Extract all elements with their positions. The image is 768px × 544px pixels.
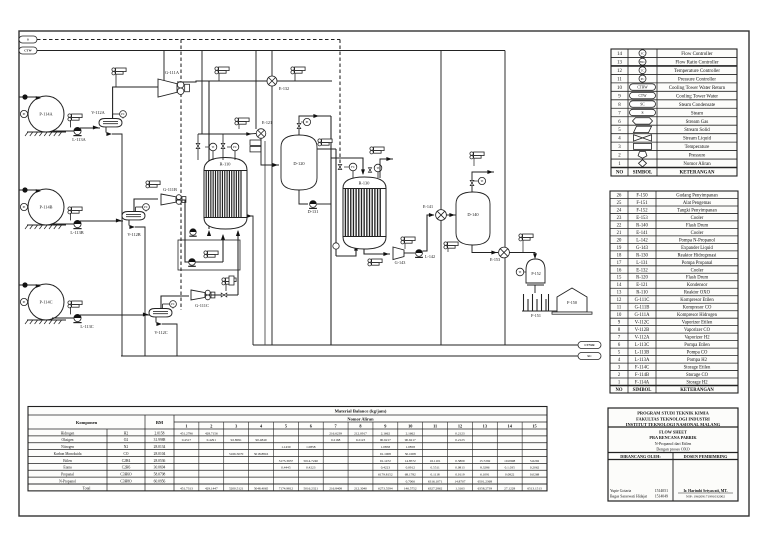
TI at R-130 top right bbox=[374, 164, 382, 172]
flag above G-111B bbox=[146, 181, 149, 184]
svg-text:1.0858: 1.0858 bbox=[306, 445, 316, 449]
svg-text:13: 13 bbox=[617, 291, 622, 296]
svg-text:1.0858: 1.0858 bbox=[406, 445, 416, 449]
valve on D-120 vent bbox=[297, 123, 301, 126]
svg-text:R-130: R-130 bbox=[359, 181, 370, 186]
svg-text:10: 10 bbox=[617, 86, 622, 91]
svg-text:0.0822: 0.0822 bbox=[505, 473, 515, 477]
legend table 2 bbox=[610, 191, 738, 393]
svg-text:L-131: L-131 bbox=[636, 261, 648, 266]
svg-text:G-111A: G-111A bbox=[634, 313, 650, 318]
svg-text:CTW: CTW bbox=[24, 49, 32, 53]
svg-text:S: S bbox=[642, 111, 644, 115]
pump L-142 bbox=[404, 252, 415, 254]
reactor R-130 (hydrogenation) bbox=[343, 177, 386, 249]
condensate drain of V-112B bbox=[128, 220, 130, 226]
feed line into P-114B bbox=[19, 189, 40, 191]
svg-text:Total: Total bbox=[83, 486, 91, 490]
svg-text:SC: SC bbox=[587, 354, 592, 358]
svg-text:Propanal: Propanal bbox=[61, 473, 74, 477]
svg-text:428.7156: 428.7156 bbox=[205, 431, 218, 435]
svg-text:Etilen: Etilen bbox=[63, 459, 72, 463]
svg-text:TI: TI bbox=[377, 166, 380, 170]
D-140 bottoms to E-153 bbox=[472, 245, 498, 253]
svg-text:Ir. Harimbi Setyawati, MT.: Ir. Harimbi Setyawati, MT. bbox=[683, 489, 727, 493]
svg-text:PI: PI bbox=[306, 120, 309, 124]
svg-text:22: 22 bbox=[617, 223, 622, 228]
svg-text:0.4291: 0.4291 bbox=[207, 438, 217, 442]
instrument flag above L-113A bbox=[68, 114, 71, 117]
cooler E-153 bbox=[499, 247, 510, 258]
svg-text:Reaktor OXO: Reaktor OXO bbox=[684, 291, 711, 296]
storage tank P-114A bbox=[28, 96, 64, 132]
pump L-113C bbox=[52, 317, 74, 319]
svg-text:5048.4065: 5048.4065 bbox=[254, 486, 269, 490]
svg-text:5016.2321: 5016.2321 bbox=[304, 486, 319, 490]
svg-text:NIP: 196209171991032002: NIP: 196209171991032002 bbox=[686, 495, 725, 499]
svg-text:L-113B: L-113B bbox=[635, 351, 649, 356]
compressor G-111C bbox=[191, 290, 205, 300]
svg-text:G-111B: G-111B bbox=[635, 306, 650, 311]
svg-text:S: S bbox=[27, 38, 29, 42]
svg-text:28.0536: 28.0536 bbox=[154, 459, 166, 463]
svg-text:0.1118: 0.1118 bbox=[431, 473, 440, 477]
svg-text:5: 5 bbox=[285, 423, 287, 428]
svg-text:G-111B: G-111B bbox=[163, 187, 177, 192]
cooler E-132 bbox=[267, 76, 277, 86]
svg-text:14.8572: 14.8572 bbox=[405, 459, 416, 463]
loading platform bbox=[548, 310, 557, 312]
svg-text:G-111C: G-111C bbox=[635, 298, 650, 303]
svg-text:V-112B: V-112B bbox=[127, 232, 140, 237]
svg-text:V-112C: V-112C bbox=[635, 321, 650, 326]
svg-text:Steam: Steam bbox=[691, 111, 703, 116]
svg-text:Flash Drum: Flash Drum bbox=[686, 223, 709, 228]
svg-text:17: 17 bbox=[617, 261, 622, 266]
svg-text:E-153: E-153 bbox=[636, 216, 648, 221]
feed line pump L-113B to V-112B bbox=[80, 220, 123, 222]
svg-text:L-142: L-142 bbox=[425, 254, 435, 259]
svg-text:28.0104: 28.0104 bbox=[154, 452, 166, 456]
V-112C vapor line to G-111C bbox=[161, 296, 189, 309]
svg-text:Kompresor Etilen: Kompresor Etilen bbox=[680, 298, 714, 303]
svg-text:3: 3 bbox=[235, 423, 237, 428]
pump below R-110 bbox=[190, 229, 196, 235]
svg-text:PC: PC bbox=[233, 145, 237, 149]
svg-text:10: 10 bbox=[408, 423, 412, 428]
svg-text:V-112B: V-112B bbox=[635, 328, 650, 333]
svg-text:13: 13 bbox=[617, 61, 622, 66]
svg-text:6327.2862: 6327.2862 bbox=[428, 486, 443, 490]
valve on R-110 top line 1 bbox=[196, 143, 200, 146]
svg-text:8.3286: 8.3286 bbox=[480, 466, 490, 470]
TI on R-110 top bbox=[209, 143, 217, 151]
svg-text:C3H6O: C3H6O bbox=[120, 473, 132, 477]
svg-text:15: 15 bbox=[617, 276, 622, 281]
svg-text:R-120: R-120 bbox=[636, 276, 648, 281]
svg-text:90.4849: 90.4849 bbox=[256, 438, 267, 442]
flag left of D-140 outlet bbox=[444, 242, 447, 245]
svg-text:27.1228: 27.1228 bbox=[504, 486, 515, 490]
FC at R-130 top bbox=[349, 163, 357, 171]
legend table 1 bbox=[611, 49, 737, 176]
steam condensate line bbox=[121, 355, 578, 357]
svg-text:24: 24 bbox=[617, 208, 622, 213]
svg-text:Cooler: Cooler bbox=[691, 231, 704, 236]
compressor G-111A bbox=[158, 79, 177, 97]
svg-text:2: 2 bbox=[210, 423, 212, 428]
svg-text:Flow Controller: Flow Controller bbox=[681, 52, 713, 57]
svg-text:L-142: L-142 bbox=[636, 238, 648, 243]
svg-text:Pompa N-Propanol: Pompa N-Propanol bbox=[679, 238, 716, 243]
svg-text:FC: FC bbox=[351, 165, 355, 169]
svg-text:R-130: R-130 bbox=[636, 253, 648, 258]
vaporizer V-112C (kettle) bbox=[149, 309, 172, 317]
V-112A vapor line to G-111A bbox=[113, 87, 158, 119]
svg-text:Storage Etilen: Storage Etilen bbox=[684, 366, 711, 371]
svg-text:P-114A: P-114A bbox=[39, 112, 53, 117]
steam header dashed line bbox=[37, 39, 340, 41]
svg-text:Vaporizer CO: Vaporizer CO bbox=[684, 328, 711, 333]
svg-text:26: 26 bbox=[617, 193, 622, 198]
svg-text:Komponen: Komponen bbox=[76, 420, 98, 425]
svg-text:31.9988: 31.9988 bbox=[154, 438, 166, 442]
svg-text:Bagas Saraswati Hidajat: Bagas Saraswati Hidajat bbox=[610, 495, 648, 499]
G-111C discharge line bbox=[205, 294, 238, 296]
svg-text:14.8707: 14.8707 bbox=[454, 479, 465, 483]
svg-text:F-151: F-151 bbox=[636, 201, 648, 206]
svg-text:60.0956: 60.0956 bbox=[154, 479, 166, 483]
svg-text:SIMBOL: SIMBOL bbox=[633, 171, 653, 176]
flag in manifold box bbox=[204, 251, 207, 254]
L-142 discharge riser to E-141 bbox=[423, 215, 435, 251]
svg-text:Pressure: Pressure bbox=[689, 154, 706, 159]
pump L-113B bbox=[52, 223, 74, 225]
svg-text:11: 11 bbox=[433, 423, 437, 428]
vaporizer V-112A (kettle) bbox=[99, 119, 122, 127]
svg-text:6316.1071: 6316.1071 bbox=[428, 479, 443, 483]
svg-text:Tangki Penyimpanan: Tangki Penyimpanan bbox=[677, 208, 717, 213]
svg-text:CO: CO bbox=[124, 452, 129, 456]
svg-text:BM: BM bbox=[156, 420, 164, 425]
pump D-131 bbox=[310, 201, 317, 208]
E-121 outlet to D-120 bbox=[261, 138, 279, 165]
svg-text:2.1662: 2.1662 bbox=[406, 431, 416, 435]
svg-text:D-120: D-120 bbox=[293, 161, 305, 166]
svg-text:N-Propanol dari Etilen: N-Propanol dari Etilen bbox=[655, 441, 691, 446]
svg-text:5166.5070: 5166.5070 bbox=[229, 452, 244, 456]
svg-text:0.2123: 0.2123 bbox=[455, 431, 465, 435]
flag on discharge line 2 bbox=[291, 67, 294, 70]
svg-text:14: 14 bbox=[617, 52, 622, 57]
svg-text:28.0134: 28.0134 bbox=[154, 445, 166, 449]
svg-text:D-131: D-131 bbox=[308, 209, 319, 214]
svg-text:L-113A: L-113A bbox=[635, 358, 650, 363]
svg-text:50.1008: 50.1008 bbox=[405, 452, 416, 456]
G-111B discharge line bbox=[176, 200, 223, 262]
svg-text:5200.5121: 5200.5121 bbox=[229, 486, 244, 490]
svg-text:90.6217: 90.6217 bbox=[380, 438, 391, 442]
svg-text:216.6239: 216.6239 bbox=[329, 431, 342, 435]
svg-text:DIRANCANG OLEH:: DIRANCANG OLEH: bbox=[620, 454, 661, 459]
flag above G-111C discharge bbox=[222, 278, 225, 281]
svg-text:12: 12 bbox=[617, 69, 622, 74]
svg-text:16.1101: 16.1101 bbox=[430, 459, 441, 463]
svg-text:Pompa Propanal: Pompa Propanal bbox=[682, 261, 714, 266]
CTW drop through E-132 bbox=[271, 51, 273, 346]
cooling water header line bbox=[37, 50, 505, 52]
CTW drop through E-141 bbox=[440, 51, 442, 346]
svg-text:CTWR: CTWR bbox=[584, 343, 595, 347]
warehouse F-150 bbox=[557, 288, 587, 312]
svg-text:N-Propanol: N-Propanol bbox=[59, 479, 76, 483]
R-130 bottoms to G-143 bbox=[364, 249, 390, 254]
steam header tag S bbox=[19, 36, 37, 43]
pump L-113A bbox=[52, 130, 74, 132]
D-140 vent line bbox=[472, 172, 494, 192]
svg-text:FC: FC bbox=[641, 51, 645, 55]
svg-text:Cooler: Cooler bbox=[691, 268, 704, 273]
svg-text:6.1091: 6.1091 bbox=[480, 473, 490, 477]
svg-text:Nomor Aliran: Nomor Aliran bbox=[683, 162, 711, 167]
flash drum D-140 bbox=[456, 192, 490, 245]
svg-text:F-150: F-150 bbox=[636, 193, 648, 198]
instrument on V-112C bbox=[170, 301, 177, 308]
svg-text:PI: PI bbox=[23, 112, 26, 116]
steam dashed branch to R-130 bbox=[339, 40, 341, 166]
vaporizer V-112B (kettle) bbox=[122, 212, 145, 220]
D-120 bottoms line bbox=[299, 190, 308, 204]
svg-text:216.8408: 216.8408 bbox=[329, 486, 342, 490]
CTWR tag bbox=[578, 342, 601, 349]
svg-text:0.0912: 0.0912 bbox=[406, 466, 416, 470]
svg-text:PC: PC bbox=[121, 112, 125, 116]
feed line pump L-113A to V-112A bbox=[80, 127, 100, 129]
flag on V-112A vapor line bbox=[112, 68, 115, 71]
CO feed riser to R-110 bbox=[222, 235, 224, 262]
svg-text:PRA RENCANA PABRIK: PRA RENCANA PABRIK bbox=[649, 435, 697, 440]
svg-text:F-114B: F-114B bbox=[635, 373, 649, 378]
svg-text:Gudang Penyimpanan: Gudang Penyimpanan bbox=[676, 193, 718, 198]
SC tag bbox=[578, 353, 601, 360]
svg-text:F-151: F-151 bbox=[531, 313, 541, 318]
hydrogen feed drop to R-110 bbox=[208, 81, 210, 229]
flag above D-140 bbox=[470, 152, 473, 155]
svg-text:0.2123: 0.2123 bbox=[455, 438, 465, 442]
svg-text:Steam Condensate: Steam Condensate bbox=[679, 103, 715, 108]
svg-text:6179.8152: 6179.8152 bbox=[378, 473, 393, 477]
condensate drain of V-112C bbox=[155, 317, 157, 323]
svg-text:451.7313: 451.7313 bbox=[180, 486, 193, 490]
svg-text:Yupie Gotaria: Yupie Gotaria bbox=[610, 489, 632, 493]
svg-text:12: 12 bbox=[617, 298, 622, 303]
P-152 outlet to F-151 bbox=[534, 285, 536, 293]
svg-text:0.4517: 0.4517 bbox=[182, 438, 192, 442]
svg-text:P-152: P-152 bbox=[531, 272, 540, 276]
valve on D-140 vent bbox=[470, 180, 474, 183]
svg-text:Stream Liquid: Stream Liquid bbox=[683, 137, 712, 142]
svg-text:0.2168: 0.2168 bbox=[331, 438, 341, 442]
svg-text:15.7292: 15.7292 bbox=[479, 459, 490, 463]
pressure gauge on P-114C bbox=[20, 298, 27, 305]
feed line into P-114C bbox=[19, 284, 40, 286]
svg-text:23: 23 bbox=[617, 216, 622, 221]
svg-text:0.5809: 0.5809 bbox=[455, 459, 465, 463]
packaging unit F-151 bbox=[522, 310, 549, 312]
svg-text:Cooling Tower Water: Cooling Tower Water bbox=[676, 94, 718, 99]
feed line into P-114A bbox=[19, 96, 40, 98]
valve on R-110 top line 2 bbox=[221, 143, 225, 146]
svg-text:25: 25 bbox=[617, 201, 622, 206]
svg-text:11: 11 bbox=[617, 77, 622, 82]
svg-text:V-112A: V-112A bbox=[635, 336, 650, 341]
svg-text:Kondensor: Kondensor bbox=[687, 283, 708, 288]
svg-text:90.6217: 90.6217 bbox=[405, 438, 416, 442]
storage tank P-114B bbox=[28, 189, 64, 225]
svg-text:0.1.035: 0.1.035 bbox=[505, 466, 515, 470]
svg-text:G-143: G-143 bbox=[636, 246, 649, 251]
svg-text:1: 1 bbox=[185, 423, 187, 428]
svg-text:L-113A: L-113A bbox=[72, 137, 86, 142]
knockout pot bbox=[229, 276, 234, 285]
flag below R-130 bbox=[368, 259, 371, 262]
PC on R-110 top bbox=[231, 143, 239, 151]
svg-text:18: 18 bbox=[617, 253, 622, 258]
svg-text:Kompresor Hidrogen: Kompresor Hidrogen bbox=[677, 313, 718, 318]
R-110 top instrument lines bbox=[198, 133, 248, 135]
svg-text:Vaporizer H2: Vaporizer H2 bbox=[684, 336, 710, 341]
svg-text:FAKULTAS TEKNOLOGI INDUSTRI: FAKULTAS TEKNOLOGI INDUSTRI bbox=[636, 416, 710, 421]
svg-text:1.0858: 1.0858 bbox=[381, 445, 391, 449]
instrument flag above L-113C bbox=[68, 301, 71, 304]
svg-text:L-113C: L-113C bbox=[80, 324, 93, 329]
svg-text:V-112C: V-112C bbox=[154, 330, 167, 335]
svg-text:6273.5594: 6273.5594 bbox=[378, 486, 393, 490]
svg-text:58.0798: 58.0798 bbox=[154, 473, 166, 477]
pump on recycle manifold bbox=[189, 259, 196, 266]
svg-text:19: 19 bbox=[617, 246, 622, 251]
svg-text:E-121: E-121 bbox=[262, 120, 272, 125]
svg-text:CTW: CTW bbox=[639, 94, 648, 98]
svg-text:Cooling Tower Water Return: Cooling Tower Water Return bbox=[669, 86, 726, 91]
svg-text:14: 14 bbox=[617, 283, 622, 288]
svg-text:E-121: E-121 bbox=[636, 283, 648, 288]
svg-text:Flash Drum: Flash Drum bbox=[686, 276, 709, 281]
svg-text:Karbon Monoksida: Karbon Monoksida bbox=[54, 452, 82, 456]
svg-text:0.4223: 0.4223 bbox=[381, 466, 391, 470]
svg-text:Reaktor Hidrogenasi: Reaktor Hidrogenasi bbox=[678, 253, 718, 258]
svg-text:NO: NO bbox=[615, 388, 622, 393]
svg-text:1.3163: 1.3163 bbox=[455, 486, 465, 490]
flash drum D-120 bbox=[281, 135, 317, 190]
sample pots under E-121 bbox=[250, 140, 261, 145]
svg-text:NO: NO bbox=[616, 171, 624, 176]
svg-text:10.0998: 10.0998 bbox=[504, 459, 515, 463]
E-153 outlet to P-152 bbox=[509, 253, 535, 259]
svg-text:KETERANGAN: KETERANGAN bbox=[679, 171, 715, 176]
svg-text:F-114C: F-114C bbox=[635, 366, 649, 371]
svg-text:R-110: R-110 bbox=[220, 162, 232, 167]
svg-text:TI: TI bbox=[519, 270, 522, 274]
svg-text:Temperature Controller: Temperature Controller bbox=[674, 69, 720, 74]
svg-text:P-114B: P-114B bbox=[40, 205, 53, 210]
svg-text:Cooler: Cooler bbox=[691, 216, 704, 221]
compressor G-111B bbox=[161, 194, 176, 205]
instrument on V-112B bbox=[143, 204, 150, 211]
flag above P-152 feed bbox=[519, 234, 522, 237]
condensate drain of V-112A bbox=[105, 127, 107, 133]
svg-text:10: 10 bbox=[617, 313, 622, 318]
svg-text:N2: N2 bbox=[124, 445, 129, 449]
TI on P-152 bbox=[516, 268, 524, 276]
svg-text:Pompa H2: Pompa H2 bbox=[687, 358, 708, 363]
instrument on V-112A bbox=[120, 111, 127, 118]
E-141 outlet to D-140 bbox=[446, 214, 456, 216]
svg-text:PI: PI bbox=[23, 300, 26, 304]
flag on discharge line 1 bbox=[215, 67, 218, 70]
svg-text:451.2796: 451.2796 bbox=[180, 431, 193, 435]
material balance table bbox=[28, 407, 547, 491]
svg-text:F-150: F-150 bbox=[567, 300, 577, 305]
svg-text:Dengan proses OXO: Dengan proses OXO bbox=[656, 447, 689, 452]
svg-text:16: 16 bbox=[617, 268, 622, 273]
svg-text:L-113C: L-113C bbox=[635, 343, 649, 348]
svg-text:1.1430: 1.1430 bbox=[281, 445, 291, 449]
svg-text:68.1782: 68.1782 bbox=[405, 473, 416, 477]
svg-text:13: 13 bbox=[483, 423, 487, 428]
svg-text:Oksigen: Oksigen bbox=[62, 438, 74, 442]
steam dashed branch vertical bbox=[180, 40, 182, 311]
svg-text:12: 12 bbox=[458, 423, 462, 428]
svg-text:0.7006: 0.7006 bbox=[406, 479, 416, 483]
svg-text:P-114C: P-114C bbox=[40, 300, 53, 305]
svg-text:Vaporizer Etilen: Vaporizer Etilen bbox=[682, 321, 713, 326]
svg-text:429.1447: 429.1447 bbox=[205, 486, 218, 490]
valve at steam line to R-130 bbox=[338, 165, 342, 168]
recycle gas downcomer bbox=[330, 116, 332, 345]
cooling tower water return line bbox=[253, 344, 578, 346]
svg-text:C2H6: C2H6 bbox=[122, 466, 131, 470]
svg-text:TI: TI bbox=[481, 179, 484, 183]
instrument on downcomer bbox=[333, 243, 339, 249]
svg-text:Hidrogen: Hidrogen bbox=[61, 431, 75, 435]
svg-text:0.4445: 0.4445 bbox=[281, 466, 291, 470]
svg-text:Stream Gas: Stream Gas bbox=[686, 120, 709, 125]
svg-text:6501.2368: 6501.2368 bbox=[478, 479, 493, 483]
svg-text:PI: PI bbox=[23, 205, 26, 209]
CTW drop through E-153 bbox=[504, 51, 506, 346]
flag on R-130 vent bbox=[370, 147, 373, 150]
svg-text:PROGRAM STUDI TEKNIK KIMIA: PROGRAM STUDI TEKNIK KIMIA bbox=[637, 411, 709, 416]
cooling tower water tag CTW bbox=[19, 47, 37, 54]
svg-text:6358.2739: 6358.2739 bbox=[478, 486, 493, 490]
svg-text:H2: H2 bbox=[124, 431, 129, 435]
svg-text:7174.9812: 7174.9812 bbox=[279, 486, 294, 490]
svg-text:212.3040: 212.3040 bbox=[354, 486, 367, 490]
svg-text:Pompa CO: Pompa CO bbox=[687, 351, 708, 356]
svg-text:Flow Ratio Controller: Flow Ratio Controller bbox=[675, 61, 719, 66]
svg-text:Temperature: Temperature bbox=[685, 145, 710, 150]
svg-text:Pressure Controller: Pressure Controller bbox=[678, 77, 716, 82]
svg-text:9: 9 bbox=[384, 423, 386, 428]
svg-text:D-140: D-140 bbox=[467, 212, 479, 217]
svg-text:91.1472: 91.1472 bbox=[380, 459, 391, 463]
feed line pump L-113C to V-112C bbox=[80, 314, 150, 316]
svg-text:R-110: R-110 bbox=[636, 291, 648, 296]
R-110 bottoms line bbox=[247, 216, 253, 345]
svg-text:Expander Liquid: Expander Liquid bbox=[681, 246, 713, 251]
CTW drop to G-111A area bbox=[163, 51, 165, 87]
